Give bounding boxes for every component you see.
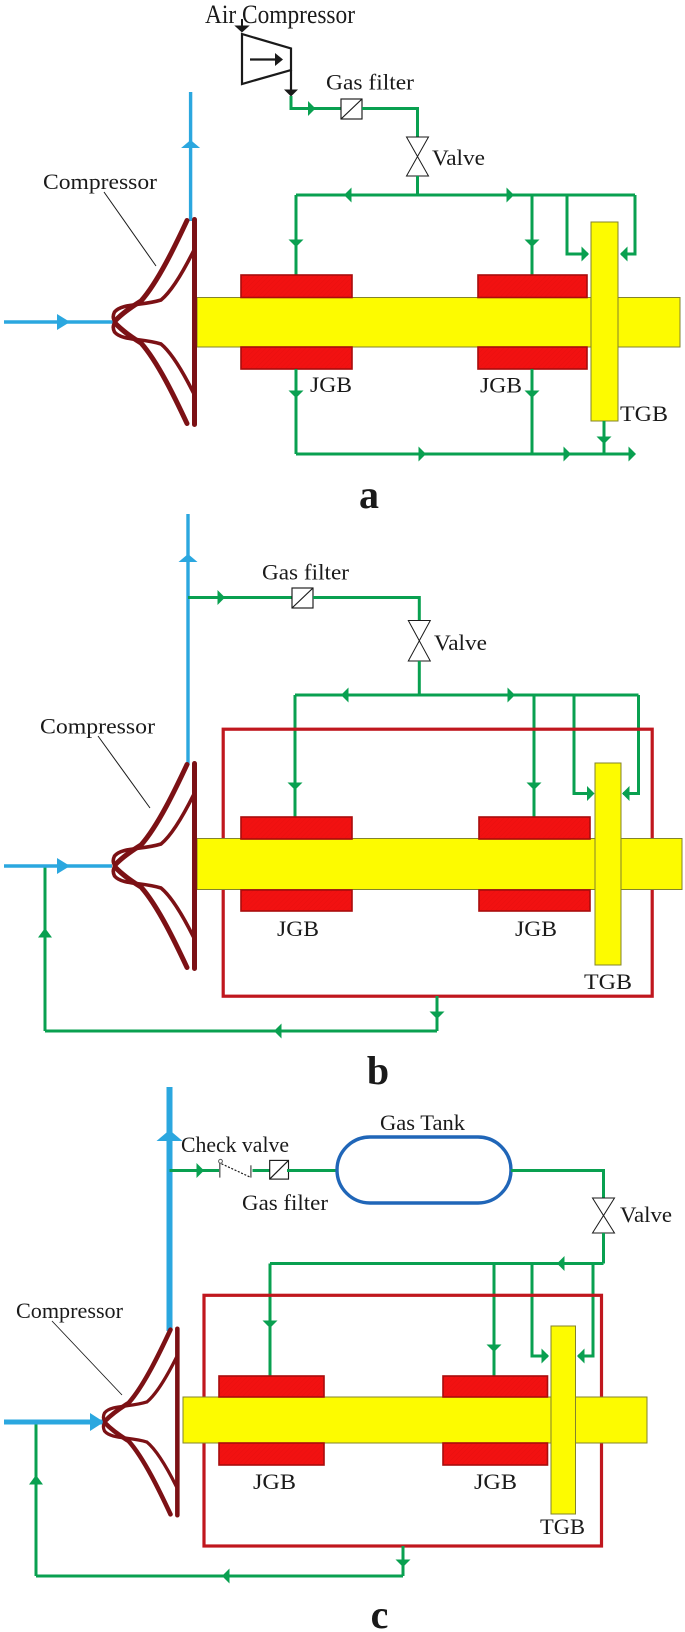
pipe: tap to check valve (c) (170, 1163, 220, 1178)
label JGB2 (a) (480, 373, 522, 398)
label JGB2 (c) (474, 1469, 517, 1494)
compressor horn (a) (113, 220, 194, 425)
gas filter symbol (c) (270, 1160, 289, 1179)
pipe: compressor outlet to gas filter (a) (291, 96, 341, 116)
label: Compressor (a) (43, 169, 158, 194)
blue air outlet line (c) (157, 1087, 183, 1331)
check valve symbol (c) (219, 1159, 251, 1177)
leader line (a) (104, 192, 156, 266)
label TGB (a) (620, 401, 668, 426)
svg-text:b: b (367, 1048, 389, 1093)
leader line (b) (98, 736, 150, 808)
svg-text:JGB: JGB (515, 916, 557, 941)
pipe: valve to manifold (c) (602, 1233, 605, 1264)
TGB thrust plate (a) (591, 222, 618, 421)
JGB2 bearing blocks (c) (443, 1376, 548, 1465)
return pipe TGB (a) (597, 421, 612, 454)
svg-text:TGB: TGB (584, 969, 632, 994)
pipe: tank to valve (c) (511, 1171, 604, 1199)
shaft (c) (183, 1397, 647, 1443)
label: Air Compressor text (205, 0, 355, 29)
supply manifold (c) (270, 1256, 604, 1271)
label: Valve (c) (620, 1202, 672, 1227)
casing (b) (223, 729, 652, 996)
blue air outlet line (a) (181, 92, 200, 221)
panel letter a (359, 472, 379, 517)
svg-text:JGB: JGB (310, 372, 352, 397)
valve symbol (a) (407, 137, 429, 176)
panel letter b (367, 1048, 389, 1093)
label: Compressor (c) (16, 1298, 124, 1323)
feed pipe JGB1 (a) (289, 195, 304, 276)
label TGB (c) (540, 1514, 585, 1539)
label: Gas filter (c) (242, 1190, 329, 1215)
shaft (b) (197, 839, 682, 890)
gas filter symbol (b) (292, 588, 313, 608)
pipe: valve to manifold (b) (418, 661, 421, 695)
leader line (c) (52, 1321, 122, 1395)
gas filter symbol (a) (341, 99, 362, 119)
feed pipe JGB1 (c) (263, 1264, 278, 1378)
exhaust line (a) (296, 447, 636, 462)
label JGB2 (b) (515, 916, 557, 941)
svg-text:Compressor: Compressor (40, 714, 156, 739)
svg-text:Air Compressor: Air Compressor (205, 0, 355, 29)
casing (c) (204, 1295, 602, 1546)
feed pipe JGB2 (c) (487, 1264, 502, 1378)
svg-text:Gas filter: Gas filter (326, 70, 415, 95)
feed pipe TGB left (c) (532, 1264, 549, 1364)
compressor horn (b) (113, 764, 194, 969)
label JGB1 (a) (310, 372, 352, 397)
feed pipe TGB left (a) (567, 195, 589, 262)
label: Gas Tank (c) (380, 1110, 465, 1135)
blue air outlet line (b) (179, 514, 198, 765)
svg-text:Compressor: Compressor (16, 1298, 124, 1323)
pipe: valve to manifold (a) (416, 176, 419, 195)
svg-text:TGB: TGB (620, 401, 668, 426)
supply manifold (b) (295, 688, 639, 703)
svg-text:a: a (359, 472, 379, 517)
JGB2 bearing blocks (a) (478, 275, 587, 369)
label JGB1 (b) (277, 916, 319, 941)
blue air inlet line (c) (4, 1413, 104, 1431)
label TGB (b) (584, 969, 632, 994)
svg-text:JGB: JGB (277, 916, 319, 941)
feed pipe TGB right (b) (622, 695, 639, 801)
svg-text:Check valve: Check valve (181, 1132, 289, 1157)
return pipe JGB2 (a) (525, 369, 540, 454)
recirculation riser (b) (38, 866, 52, 1031)
exhaust line (b) (45, 1024, 437, 1039)
air compressor inlet arrow (234, 19, 249, 33)
pipe: gas filter to tank (c) (287, 1169, 336, 1172)
recirculation riser (c) (29, 1422, 43, 1576)
air compressor symbol (trapezoid) (242, 34, 291, 84)
svg-text:JGB: JGB (253, 1469, 296, 1494)
svg-text:c: c (371, 1592, 389, 1632)
pipe: check valve to gas filter (c) (253, 1169, 271, 1172)
blue air inlet line (a) (4, 314, 114, 330)
svg-text:Valve: Valve (620, 1202, 672, 1227)
TGB thrust plate (c) (551, 1326, 576, 1514)
air compressor outlet arrow (284, 70, 298, 97)
JGB1 bearing blocks (c) (219, 1376, 324, 1465)
svg-text:Valve: Valve (432, 145, 485, 170)
feed pipe TGB right (a) (620, 195, 635, 262)
return pipe JGB1 (a) (289, 369, 304, 454)
feed pipe JGB2 (b) (527, 695, 542, 818)
label: Gas filter (a) (326, 70, 415, 95)
feed pipe TGB right (c) (577, 1264, 593, 1364)
panel letter c (371, 1592, 389, 1632)
svg-text:Gas filter: Gas filter (262, 560, 350, 585)
label: Valve (b) (434, 630, 487, 655)
gas tank (c) (337, 1137, 511, 1203)
feed pipe JGB1 (b) (288, 695, 303, 818)
svg-text:TGB: TGB (540, 1514, 585, 1539)
svg-text:JGB: JGB (480, 373, 522, 398)
return pipe from casing (b) (430, 996, 445, 1031)
JGB2 bearing blocks (b) (479, 817, 590, 911)
svg-text:JGB: JGB (474, 1469, 517, 1494)
svg-text:Gas Tank: Gas Tank (380, 1110, 465, 1135)
svg-text:Valve: Valve (434, 630, 487, 655)
valve symbol (c) (593, 1198, 615, 1233)
JGB1 bearing blocks (b) (241, 817, 352, 911)
label: Gas filter (b) (262, 560, 350, 585)
pipe: gas filter to valve (a) (362, 109, 418, 138)
shaft (a) (197, 298, 680, 348)
supply manifold (a) (296, 188, 635, 203)
svg-text:Gas filter: Gas filter (242, 1190, 329, 1215)
svg-text:Compressor: Compressor (43, 169, 158, 194)
pipe: gas filter to valve (b) (313, 598, 419, 621)
feed pipe TGB left (b) (574, 695, 595, 801)
TGB thrust plate (b) (595, 763, 621, 965)
label: Valve (a) (432, 145, 485, 170)
label: Check valve (c) (181, 1132, 289, 1157)
compressor horn (c) (103, 1329, 177, 1516)
JGB1 bearing blocks (a) (241, 275, 352, 369)
exhaust line (c) (36, 1569, 403, 1584)
valve symbol (b) (408, 621, 430, 662)
label JGB1 (c) (253, 1469, 296, 1494)
feed pipe JGB2 (a) (525, 195, 540, 276)
blue air inlet line (b) (4, 858, 112, 874)
pipe: tap to gas filter (b) (188, 590, 292, 605)
label: Compressor (b) (40, 714, 156, 739)
return pipe from casing (c) (396, 1546, 411, 1576)
